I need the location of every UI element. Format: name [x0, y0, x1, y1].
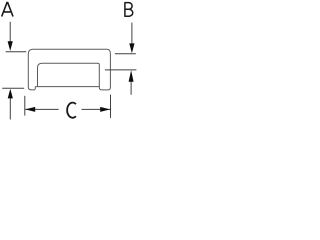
- dim B top arrow shaft: [131, 23, 133, 44]
- dim B top extension line: [115, 53, 136, 55]
- dim A bottom arrow shaft: [9, 98, 11, 120]
- body outer outline with feet and inner step: [28, 49, 110, 90]
- dim B bottom arrowhead: [129, 70, 134, 82]
- dim A bottom arrowhead: [8, 89, 13, 99]
- dim B bottom extension line: [105, 69, 136, 71]
- dim A bottom extension line: [2, 87, 24, 89]
- dim C line right segment: [82, 108, 111, 110]
- dim B bottom arrow shaft: [130, 81, 132, 95]
- dim A top extension line: [6, 51, 27, 53]
- dim C right arrowhead: [100, 107, 110, 112]
- dim A top arrow shaft: [9, 22, 11, 43]
- component body outline (chip package profile): [28, 49, 110, 90]
- label A: [2, 3, 13, 17]
- dim A top arrowhead: [8, 41, 13, 51]
- label C: [67, 103, 76, 118]
- dim C right extension line: [110, 95, 112, 118]
- bottom recess line: [35, 86, 99, 88]
- dim C line left segment: [25, 108, 58, 110]
- dim C left arrowhead: [25, 107, 35, 112]
- dim B top arrowhead: [129, 43, 134, 53]
- dim C left extension line: [24, 96, 26, 116]
- label B: [125, 2, 133, 17]
